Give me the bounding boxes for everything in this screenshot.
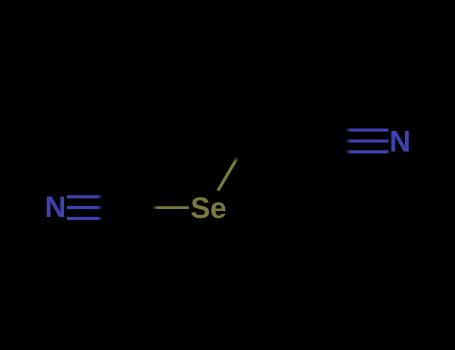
single bond C1-Se [132,206,189,209]
svg-text:N: N [389,126,410,159]
triple bond C3#N2 [323,130,389,152]
single bond Se-C2 [218,141,248,191]
triple bond N1#C1 [67,197,132,219]
svg-text:Se: Se [190,192,226,225]
svg-text:N: N [45,191,66,224]
